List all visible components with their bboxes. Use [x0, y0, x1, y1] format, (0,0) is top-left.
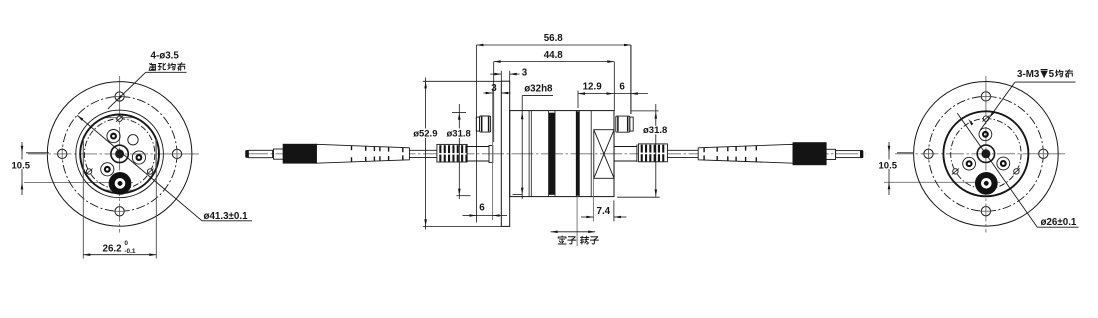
svg-text:ø52.9: ø52.9 [413, 129, 437, 140]
svg-text:3-M3: 3-M3 [1017, 69, 1040, 80]
svg-text:6: 6 [479, 202, 485, 213]
svg-text:7.4: 7.4 [597, 206, 611, 217]
svg-text:10.5: 10.5 [879, 160, 898, 171]
svg-text:4-ø3.5: 4-ø3.5 [151, 51, 180, 62]
svg-text:-0.1: -0.1 [124, 248, 135, 255]
svg-text:3: 3 [522, 67, 528, 78]
svg-text:ø31.8: ø31.8 [447, 129, 471, 140]
svg-text:ø26±0.1: ø26±0.1 [1041, 217, 1077, 228]
svg-text:44.8: 44.8 [544, 50, 564, 61]
svg-text:6: 6 [619, 81, 625, 92]
svg-text:26.2: 26.2 [103, 243, 123, 254]
svg-text:3: 3 [491, 83, 497, 94]
svg-text:12.9: 12.9 [583, 81, 603, 92]
svg-text:0: 0 [124, 240, 128, 247]
svg-text:10.5: 10.5 [12, 160, 31, 171]
svg-text:ø41.3±0.1: ø41.3±0.1 [204, 211, 249, 222]
svg-text:ø32h8: ø32h8 [524, 83, 553, 94]
svg-text:56.8: 56.8 [544, 33, 564, 44]
svg-text:ø31.8: ø31.8 [643, 125, 667, 136]
svg-text:5: 5 [1049, 69, 1055, 80]
